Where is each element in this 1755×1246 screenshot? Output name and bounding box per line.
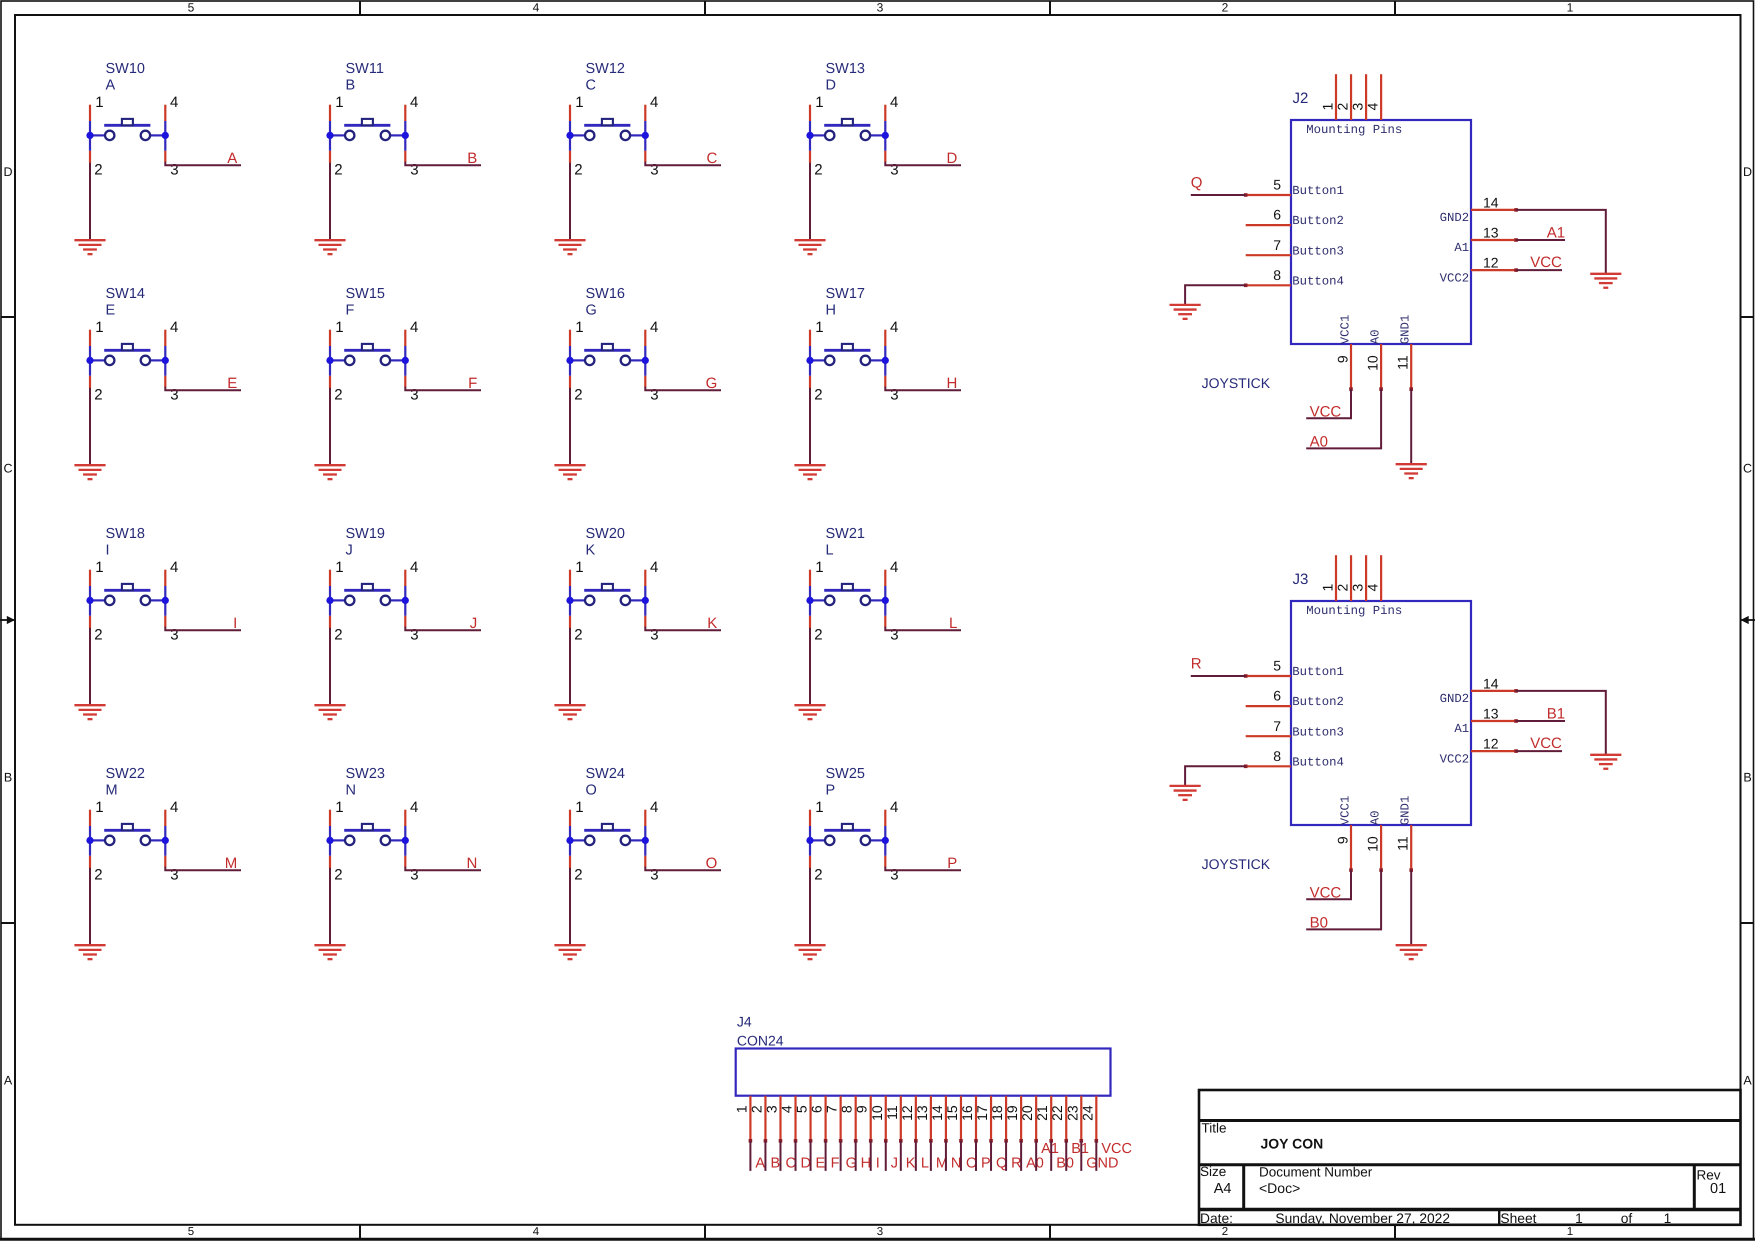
wire pin 19 J4 to net A0 — [1020, 1141, 1022, 1171]
svg-text:4: 4 — [1365, 584, 1381, 592]
ground at SW14 — [74, 465, 105, 479]
pin 4 SW10 — [164, 105, 166, 121]
pin 3 SW11 — [404, 151, 406, 162]
junction pin 23 J4 — [1079, 1139, 1083, 1143]
ground at SW16 — [554, 465, 585, 479]
svg-text:4: 4 — [779, 1105, 795, 1113]
svg-text:5: 5 — [1273, 658, 1281, 674]
ground at SW18 — [74, 705, 105, 719]
svg-text:22: 22 — [1049, 1105, 1065, 1121]
svg-text:2: 2 — [748, 1105, 764, 1113]
wire SW11 pin 2 to ground — [329, 163, 331, 240]
pin 3 SW21 — [884, 616, 886, 627]
svg-text:J3: J3 — [1293, 571, 1309, 588]
pin 4 SW23 — [404, 810, 406, 826]
pin 2 SW20 — [569, 616, 571, 628]
junction pin 5 J3 — [1244, 674, 1248, 678]
pin 1 J2 (mounting) — [1335, 74, 1337, 120]
svg-text:4: 4 — [890, 559, 898, 576]
pin 14 J3 GND2 — [1471, 690, 1516, 692]
svg-text:N: N — [346, 783, 356, 799]
pin 2 SW17 — [809, 376, 811, 388]
svg-text:3: 3 — [170, 867, 178, 884]
border centre arrow right — [1741, 616, 1755, 624]
pin 2 SW24 — [569, 856, 571, 868]
pin 20 J4 — [1035, 1096, 1037, 1141]
svg-text:4: 4 — [890, 94, 898, 111]
svg-text:1: 1 — [575, 94, 583, 111]
svg-text:I: I — [233, 615, 237, 632]
svg-text:1: 1 — [575, 799, 583, 816]
junction SW10 pin 4 — [162, 132, 169, 139]
svg-text:4: 4 — [170, 559, 178, 576]
svg-text:GND1: GND1 — [1399, 315, 1413, 345]
svg-text:G: G — [586, 303, 597, 319]
pin 2 SW25 — [809, 856, 811, 868]
svg-text:3: 3 — [890, 867, 898, 884]
pin 2 SW23 — [329, 856, 331, 868]
junction SW24 pin 4 — [642, 837, 649, 844]
pin 12 J3 VCC2 — [1471, 750, 1516, 752]
wire SW21 pin 2 to ground — [809, 628, 811, 705]
pin 12 J2 VCC2 — [1471, 269, 1516, 271]
svg-text:GND2: GND2 — [1440, 692, 1470, 706]
junction pin 13 J2 — [1514, 238, 1518, 242]
svg-text:2: 2 — [814, 386, 822, 403]
switch SW13 body — [810, 119, 885, 151]
zone tick bottom x=705 — [704, 1225, 706, 1239]
svg-text:Sheet: Sheet — [1500, 1211, 1536, 1226]
svg-text:Date:: Date: — [1200, 1211, 1233, 1226]
wire pin 15 J4 to net O — [960, 1141, 962, 1171]
switch SW22 body — [90, 824, 165, 856]
wire SW19 pin 3 to net J — [405, 627, 481, 631]
svg-text:D: D — [826, 78, 836, 94]
pin 1 SW12 — [569, 105, 571, 121]
junction pin 17 J4 — [989, 1139, 993, 1143]
svg-text:VCC: VCC — [1530, 735, 1562, 752]
pin 2 SW19 — [329, 616, 331, 628]
svg-text:B: B — [770, 1156, 780, 1172]
junction pin 5 J4 — [809, 1139, 813, 1143]
pin 3 SW22 — [164, 856, 166, 867]
svg-text:4: 4 — [650, 319, 658, 336]
wire pin 7 J4 to net G — [840, 1141, 842, 1171]
pin 4 SW24 — [644, 810, 646, 826]
pin 5 J4 — [809, 1096, 811, 1141]
svg-text:SW18: SW18 — [106, 526, 146, 542]
pin 3 SW10 — [164, 151, 166, 162]
connector J2 body — [1291, 120, 1471, 344]
wire pin 20 J4 to net A1 — [1035, 1141, 1037, 1171]
svg-text:4: 4 — [170, 319, 178, 336]
pin 1 J4 — [749, 1096, 751, 1141]
zone tick right y=317 — [1741, 316, 1755, 318]
wire pin 24 J4 to net VCC — [1095, 1141, 1097, 1171]
wire pin 4 J4 to net D — [795, 1141, 797, 1171]
svg-text:20: 20 — [1019, 1105, 1035, 1121]
svg-text:A0: A0 — [1026, 1156, 1044, 1172]
svg-text:2: 2 — [574, 386, 582, 403]
junction pin 12 J2 — [1514, 268, 1518, 272]
svg-text:18: 18 — [989, 1105, 1005, 1121]
pin 4 SW16 — [644, 330, 646, 346]
ground at SW22 — [74, 945, 105, 959]
svg-text:2: 2 — [1222, 1, 1229, 15]
svg-text:JOYSTICK: JOYSTICK — [1202, 375, 1271, 391]
ground at SW13 — [794, 240, 825, 254]
svg-text:JOYSTICK: JOYSTICK — [1202, 856, 1271, 872]
border centre arrow left — [0, 616, 15, 624]
connector J4 body — [736, 1049, 1111, 1096]
wire SW23 pin 3 to net N — [405, 867, 481, 871]
switch SW24 body — [570, 824, 645, 856]
svg-text:A: A — [106, 78, 116, 94]
wire pin 12 J4 to net L — [915, 1141, 917, 1171]
svg-text:A0: A0 — [1310, 434, 1328, 451]
svg-text:11: 11 — [884, 1105, 900, 1120]
junction pin 4 J4 — [794, 1139, 798, 1143]
wire SW15 pin 2 to ground — [329, 388, 331, 465]
svg-text:1: 1 — [1319, 103, 1335, 111]
junction pin 2 J4 — [764, 1139, 768, 1143]
pin 4 J2 (mounting) — [1380, 74, 1382, 120]
pin 2 SW16 — [569, 376, 571, 388]
svg-text:4: 4 — [1365, 103, 1381, 111]
wire SW12 pin 2 to ground — [569, 163, 571, 240]
svg-text:8: 8 — [1273, 748, 1281, 764]
svg-text:B0: B0 — [1310, 915, 1328, 932]
svg-text:2: 2 — [574, 626, 582, 643]
svg-text:SW11: SW11 — [346, 61, 384, 77]
junction SW10 pin 1 — [86, 132, 93, 139]
svg-text:4: 4 — [533, 1226, 540, 1238]
svg-text:01: 01 — [1710, 1181, 1726, 1197]
pin 2 J2 (mounting) — [1350, 74, 1352, 120]
svg-text:SW16: SW16 — [586, 286, 626, 302]
pin 13 J4 — [930, 1096, 932, 1141]
svg-text:J2: J2 — [1293, 90, 1309, 107]
junction SW22 pin 1 — [86, 837, 93, 844]
pin 3 SW13 — [884, 151, 886, 162]
pin 2 SW12 — [569, 151, 571, 163]
pin 13 J3 A1 — [1471, 720, 1516, 722]
wire SW25 pin 3 to net P — [885, 867, 961, 871]
svg-text:3: 3 — [1349, 584, 1365, 592]
zone tick bottom x=1050 — [1049, 1225, 1051, 1239]
svg-text:1: 1 — [335, 559, 343, 576]
svg-text:1: 1 — [575, 319, 583, 336]
wire net R to pin 5 J3 — [1191, 675, 1246, 677]
svg-text:4: 4 — [170, 799, 178, 816]
pin 1 SW20 — [569, 570, 571, 586]
pin 1 SW25 — [809, 810, 811, 826]
wire pin 14 J3 to ground — [1516, 691, 1606, 755]
wire SW15 pin 3 to net F — [405, 387, 481, 391]
svg-text:N: N — [951, 1156, 961, 1172]
junction pin 1 J4 — [749, 1139, 753, 1143]
svg-text:13: 13 — [1483, 706, 1499, 722]
wire SW23 pin 2 to ground — [329, 868, 331, 945]
wire pin 8 J2 to ground — [1185, 285, 1246, 305]
pin 1 SW23 — [329, 810, 331, 826]
svg-text:2: 2 — [1222, 1226, 1228, 1238]
wire pin 14 J4 to net N — [945, 1141, 947, 1171]
svg-text:H: H — [946, 375, 957, 392]
svg-text:3: 3 — [650, 162, 658, 179]
pin 8 J3 Button4 — [1246, 765, 1291, 767]
svg-text:10: 10 — [869, 1105, 885, 1121]
wire pin 6 J4 to net F — [825, 1141, 827, 1171]
svg-text:F: F — [468, 375, 477, 392]
switch SW23 body — [330, 824, 405, 856]
svg-text:SW25: SW25 — [826, 766, 866, 782]
pin 1 SW16 — [569, 330, 571, 346]
pin 4 SW11 — [404, 105, 406, 121]
junction SW18 pin 4 — [162, 597, 169, 604]
wire SW16 pin 2 to ground — [569, 388, 571, 465]
pin 3 SW14 — [164, 376, 166, 387]
ground pin 8 J2 — [1170, 305, 1201, 319]
svg-text:SW17: SW17 — [826, 286, 866, 302]
svg-text:21: 21 — [1034, 1105, 1050, 1121]
ground at SW25 — [794, 945, 825, 959]
svg-text:1: 1 — [95, 559, 103, 576]
svg-text:1: 1 — [1567, 1226, 1573, 1238]
junction SW15 pin 4 — [402, 357, 409, 364]
svg-text:SW19: SW19 — [346, 526, 386, 542]
svg-text:B: B — [4, 770, 12, 784]
svg-text:SW15: SW15 — [346, 286, 386, 302]
svg-text:A: A — [227, 150, 237, 167]
svg-text:P: P — [826, 783, 836, 799]
wire pin 11 J3 to ground — [1410, 870, 1412, 945]
svg-text:VCC2: VCC2 — [1440, 752, 1470, 766]
svg-text:of: of — [1621, 1211, 1633, 1226]
junction SW25 pin 4 — [882, 837, 889, 844]
svg-text:VCC1: VCC1 — [1338, 796, 1352, 826]
svg-text:Button3: Button3 — [1292, 244, 1344, 258]
zone tick bottom x=360 — [359, 1225, 361, 1239]
pin 17 J4 — [990, 1096, 992, 1141]
svg-text:3: 3 — [890, 387, 898, 404]
junction SW23 pin 4 — [402, 837, 409, 844]
svg-text:6: 6 — [809, 1105, 825, 1113]
svg-text:GND2: GND2 — [1440, 211, 1470, 225]
svg-text:3: 3 — [170, 627, 178, 644]
svg-text:SW24: SW24 — [586, 766, 626, 782]
junction SW14 pin 4 — [162, 357, 169, 364]
svg-text:1: 1 — [815, 799, 823, 816]
svg-text:2: 2 — [1334, 584, 1350, 592]
svg-text:A1: A1 — [1454, 722, 1469, 736]
svg-text:D: D — [946, 150, 957, 167]
svg-text:2: 2 — [1334, 103, 1350, 111]
pin 1 SW24 — [569, 810, 571, 826]
svg-text:O: O — [706, 855, 718, 872]
zone tick top x=360 — [359, 1, 361, 15]
svg-text:4: 4 — [650, 94, 658, 111]
wire SW14 pin 2 to ground — [89, 388, 91, 465]
pin 3 SW23 — [404, 856, 406, 867]
wire SW19 pin 2 to ground — [329, 628, 331, 705]
junction SW16 pin 4 — [642, 357, 649, 364]
svg-text:VCC: VCC — [1310, 884, 1342, 901]
svg-text:3: 3 — [410, 387, 418, 404]
wire SW20 pin 3 to net K — [645, 627, 721, 631]
svg-text:A: A — [755, 1156, 765, 1172]
pin 14 J4 — [945, 1096, 947, 1141]
pin 4 J3 (mounting) — [1380, 555, 1382, 601]
svg-text:Button4: Button4 — [1292, 755, 1344, 769]
svg-text:2: 2 — [574, 866, 582, 883]
svg-text:<Doc>: <Doc> — [1259, 1180, 1300, 1196]
svg-text:B: B — [467, 150, 477, 167]
zone tick bottom x=1395 — [1394, 1225, 1396, 1239]
svg-text:2: 2 — [94, 161, 102, 178]
svg-text:E: E — [816, 1156, 826, 1172]
svg-text:GND1: GND1 — [1399, 796, 1413, 826]
svg-text:VCC: VCC — [1101, 1141, 1132, 1157]
ground at SW17 — [794, 465, 825, 479]
junction pin 7 J4 — [839, 1139, 843, 1143]
junction pin 10 J4 — [884, 1139, 888, 1143]
junction SW21 pin 4 — [882, 597, 889, 604]
pin 8 J4 — [855, 1096, 857, 1141]
svg-text:4: 4 — [650, 799, 658, 816]
svg-text:1: 1 — [1575, 1211, 1583, 1226]
switch SW20 body — [570, 584, 645, 616]
wire pin 12 J2 to net VCC — [1516, 269, 1562, 271]
wire SW10 pin 2 to ground — [89, 163, 91, 240]
svg-text:3: 3 — [890, 162, 898, 179]
ground pin 11 J2 — [1396, 464, 1427, 478]
wire SW24 pin 2 to ground — [569, 868, 571, 945]
junction SW15 pin 1 — [326, 357, 333, 364]
junction SW19 pin 1 — [326, 597, 333, 604]
wire pin 18 J4 to net R — [1005, 1141, 1007, 1171]
pin 4 SW25 — [884, 810, 886, 826]
wire pin 8 J4 to net H — [855, 1141, 857, 1171]
svg-text:R: R — [1011, 1156, 1021, 1172]
ground at SW19 — [314, 705, 345, 719]
wire pin 9 J4 to net I — [870, 1141, 872, 1171]
svg-text:4: 4 — [890, 799, 898, 816]
zone tick right y=923 — [1741, 922, 1755, 924]
svg-text:C: C — [1743, 461, 1752, 475]
svg-text:14: 14 — [1483, 676, 1499, 692]
svg-text:6: 6 — [1273, 207, 1281, 223]
wire pin 11 J2 to ground — [1410, 389, 1412, 464]
pin 1 SW11 — [329, 105, 331, 121]
pin 10 J2 A0 — [1380, 344, 1382, 389]
svg-text:SW14: SW14 — [106, 286, 146, 302]
pin 3 J2 (mounting) — [1365, 74, 1367, 120]
pin 4 SW18 — [164, 570, 166, 586]
svg-text:A: A — [4, 1073, 13, 1087]
pin 1 SW10 — [89, 105, 91, 121]
junction pin 16 J4 — [974, 1139, 978, 1143]
svg-text:SW13: SW13 — [826, 61, 866, 77]
pin 3 SW17 — [884, 376, 886, 387]
pin 9 J4 — [870, 1096, 872, 1141]
ground pin 8 J3 — [1170, 786, 1201, 800]
svg-text:A0: A0 — [1369, 329, 1383, 344]
svg-text:9: 9 — [1335, 836, 1351, 844]
junction pin 21 J4 — [1049, 1139, 1053, 1143]
svg-text:11: 11 — [1395, 836, 1411, 851]
svg-text:C: C — [586, 78, 596, 94]
junction pin 19 J4 — [1019, 1139, 1023, 1143]
wire SW12 pin 3 to net C — [645, 162, 721, 166]
pin 9 J3 VCC1 — [1350, 825, 1352, 870]
svg-text:24: 24 — [1079, 1105, 1095, 1121]
junction pin 12 J3 — [1514, 749, 1518, 753]
pin 15 J4 — [960, 1096, 962, 1141]
junction SW13 pin 1 — [806, 132, 813, 139]
pin 6 J4 — [824, 1096, 826, 1141]
svg-text:Button1: Button1 — [1292, 184, 1344, 198]
svg-text:2: 2 — [334, 626, 342, 643]
svg-text:3: 3 — [650, 387, 658, 404]
svg-text:10: 10 — [1365, 355, 1381, 371]
pin 3 J4 — [779, 1096, 781, 1141]
pin 3 SW18 — [164, 616, 166, 627]
pin 3 SW12 — [644, 151, 646, 162]
svg-text:3: 3 — [170, 387, 178, 404]
zone tick top x=705 — [704, 1, 706, 15]
svg-text:3: 3 — [410, 162, 418, 179]
switch SW21 body — [810, 584, 885, 616]
wire pin 14 J2 to ground — [1516, 210, 1606, 274]
svg-text:SW22: SW22 — [106, 766, 146, 782]
switch SW14 body — [90, 344, 165, 376]
svg-text:4: 4 — [410, 319, 418, 336]
svg-text:3: 3 — [1349, 103, 1365, 111]
junction pin 8 J2 — [1244, 284, 1248, 288]
junction SW11 pin 1 — [326, 132, 333, 139]
pin 2 SW15 — [329, 376, 331, 388]
pin 3 SW16 — [644, 376, 646, 387]
wire SW21 pin 3 to net L — [885, 627, 961, 631]
svg-text:K: K — [707, 615, 717, 632]
svg-text:9: 9 — [854, 1105, 870, 1113]
pin 3 SW15 — [404, 376, 406, 387]
junction pin 9 J4 — [869, 1139, 873, 1143]
svg-text:5: 5 — [1273, 177, 1281, 193]
ground at SW23 — [314, 945, 345, 959]
svg-text:Q: Q — [1191, 175, 1203, 192]
junction SW12 pin 4 — [642, 132, 649, 139]
svg-text:Button2: Button2 — [1292, 214, 1344, 228]
svg-text:Sunday, November 27, 2022: Sunday, November 27, 2022 — [1275, 1211, 1450, 1226]
pin 1 SW18 — [89, 570, 91, 586]
junction pin 8 J4 — [854, 1139, 858, 1143]
pin 1 SW14 — [89, 330, 91, 346]
svg-text:2: 2 — [814, 626, 822, 643]
svg-text:2: 2 — [334, 161, 342, 178]
junction pin 14 J2 — [1514, 208, 1518, 212]
svg-text:L: L — [949, 615, 957, 632]
pin 10 J3 A0 — [1380, 825, 1382, 870]
pin 14 J2 GND2 — [1471, 209, 1516, 211]
wire SW25 pin 2 to ground — [809, 868, 811, 945]
pin 5 J3 Button1 — [1246, 675, 1291, 677]
junction pin 5 J2 — [1244, 193, 1248, 197]
svg-text:B: B — [346, 78, 356, 94]
svg-text:4: 4 — [890, 319, 898, 336]
svg-text:8: 8 — [839, 1105, 855, 1113]
